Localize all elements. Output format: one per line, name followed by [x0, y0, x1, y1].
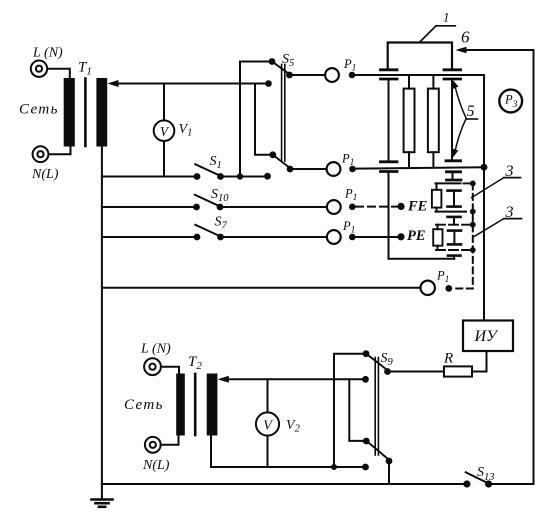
terminal N(L) of T1 primary — [33, 146, 49, 162]
resistor DUT-1 — [404, 76, 415, 166]
node S5 upper-left fixed contact — [265, 80, 272, 87]
terminal P1 row1 — [325, 68, 355, 82]
wire N(L) terminal to T1 primary bottom — [49, 147, 71, 155]
wire V1 bottom to S1 row — [163, 141, 165, 177]
DUT bottom edge — [389, 258, 454, 260]
terminal L(N) of T2 primary — [144, 358, 161, 375]
terminal P1 row3 — [327, 200, 356, 214]
voltmeter V1 — [154, 120, 175, 141]
wire bottom return line right part — [489, 483, 534, 485]
label 5 with two arrowed leaders — [452, 80, 477, 158]
svg-text:FЕ: FЕ — [407, 199, 428, 215]
switch S9 (double pole changeover) — [334, 350, 392, 467]
svg-text:5: 5 — [467, 103, 475, 120]
wire S7 row to P1 terminal — [224, 236, 327, 238]
wire S1 row from bus — [102, 176, 194, 178]
switch S5 (double pole changeover) — [240, 58, 293, 176]
capacitor FE — [448, 191, 461, 207]
wire T1 secondary top (variac tap) with arrowhead — [108, 80, 269, 87]
svg-text:ИУ: ИУ — [474, 328, 500, 345]
svg-text:R: R — [443, 351, 453, 367]
wire L(N) terminal to T1 primary top — [47, 69, 70, 78]
wire P1 row4 to PE terminal — [356, 236, 397, 238]
measuring unit IU box — [463, 321, 513, 352]
capacitor housing-left (straddles top edge) — [381, 70, 398, 79]
svg-text:L (N): L (N) — [140, 342, 171, 357]
svg-text:6: 6 — [461, 28, 470, 47]
resistor DUT-2 — [428, 76, 439, 166]
svg-text:V: V — [263, 419, 273, 434]
voltmeter V2 — [256, 412, 279, 435]
wire T2 secondary bottom line — [211, 436, 366, 468]
terminal P1 row5 — [421, 281, 453, 295]
wire V2 top riser — [267, 379, 269, 412]
resistor PE — [433, 225, 442, 250]
svg-text:Сеть: Сеть — [19, 102, 59, 118]
node PE terminal — [397, 233, 404, 240]
svg-text:1: 1 — [443, 10, 450, 25]
wire S5 bottom pole to P1 row2 — [294, 168, 327, 170]
wire S10 row to P1 terminal — [224, 206, 327, 208]
capacitor FE-PE link — [448, 217, 461, 225]
node S5 lower-left fixed contact — [264, 173, 271, 180]
transformer T1 — [64, 78, 108, 147]
FE network bottom bar with dashed tie — [436, 209, 476, 215]
svg-text:L (N): L (N) — [32, 46, 63, 61]
wire (dashed) P1 row3 to FE terminal — [356, 206, 397, 208]
wire N(L) terminal to T2 primary bottom — [161, 436, 179, 445]
switch S7 — [194, 225, 224, 241]
switch S1 — [194, 164, 224, 180]
wire row1 P1 to DUT top edge — [355, 74, 484, 76]
switch S10 — [193, 195, 223, 211]
resistor FE — [432, 183, 442, 211]
wire left column to bottom edge — [388, 172, 390, 259]
svg-text:PЕ: PЕ — [407, 228, 426, 244]
svg-text:Сеть: Сеть — [124, 397, 164, 413]
capacitor PE to chassis — [448, 256, 461, 259]
resistor R — [444, 366, 472, 376]
wire row5 from bus to P1 — [102, 287, 421, 289]
dashed probe line (item 3 ties) — [452, 183, 473, 288]
wire S10 row from bus — [102, 206, 193, 208]
gauge P3 — [499, 90, 522, 113]
capacitor PE — [448, 231, 461, 245]
wire left column down — [388, 79, 390, 162]
svg-text:N(L): N(L) — [31, 167, 59, 182]
wire L(N) terminal to T2 primary top — [161, 367, 179, 374]
wire V2 bottom riser — [267, 436, 269, 467]
wire V1 top to variac line — [163, 84, 165, 121]
FE network top bar with dashed tie — [436, 181, 476, 187]
ground — [92, 484, 113, 507]
wire item 6 arrow into housing and outer loop right edge — [455, 47, 533, 484]
terminal N(L) of T2 primary — [145, 437, 161, 453]
wire S1 row to S5 contacts — [224, 176, 268, 178]
switch S13 — [463, 472, 492, 487]
PE network top bar (dashed) — [436, 222, 476, 228]
FE branch top capacitor — [447, 172, 462, 180]
wire S5 top pole to P1 row1 — [293, 74, 325, 76]
wire R to S9 contact — [389, 371, 445, 373]
wire S9 pole2 contact to bottom line — [388, 461, 390, 484]
svg-text:N(L): N(L) — [142, 458, 170, 473]
junction S5 riser on S1 row — [237, 173, 243, 179]
terminal L(N) of T1 primary — [31, 60, 47, 76]
wire row2 P1 to DUT (second line) — [356, 167, 484, 168]
wire T2 secondary top (variac tap) with arrowhead — [218, 376, 366, 383]
DUT right edge down to IU — [483, 75, 485, 321]
capacitor left column (straddles second line) — [381, 162, 398, 172]
node S9 lower alt contact — [362, 464, 369, 471]
wire bottom return line left part — [102, 483, 467, 485]
wire right column down — [451, 79, 453, 161]
wire IU bottom to resistor R — [472, 351, 487, 372]
label 1 with leader shelf — [420, 10, 456, 43]
label 3 upper with leader — [472, 163, 521, 198]
capacitor right column (straddles second line) — [446, 161, 461, 172]
terminal P1 row2 — [327, 162, 356, 176]
junction row2 at DUT right edge — [481, 164, 488, 171]
wire S7 row from bus — [102, 236, 194, 238]
terminal P1 row4 — [327, 230, 356, 244]
appliance housing box (item 1, open-bottom) — [388, 43, 452, 70]
capacitor housing-right (straddles top edge) — [444, 70, 461, 79]
node S9 upper alt contact — [362, 376, 369, 383]
label 3 lower with leader — [475, 204, 522, 236]
PE network bottom bar (dashed) — [436, 247, 476, 253]
junction S9 feed riser on bottom secondary line — [331, 464, 337, 470]
transformer T2 — [176, 374, 217, 436]
node FE terminal — [397, 203, 404, 210]
wire main bus from T1 secondary bottom — [101, 147, 103, 485]
